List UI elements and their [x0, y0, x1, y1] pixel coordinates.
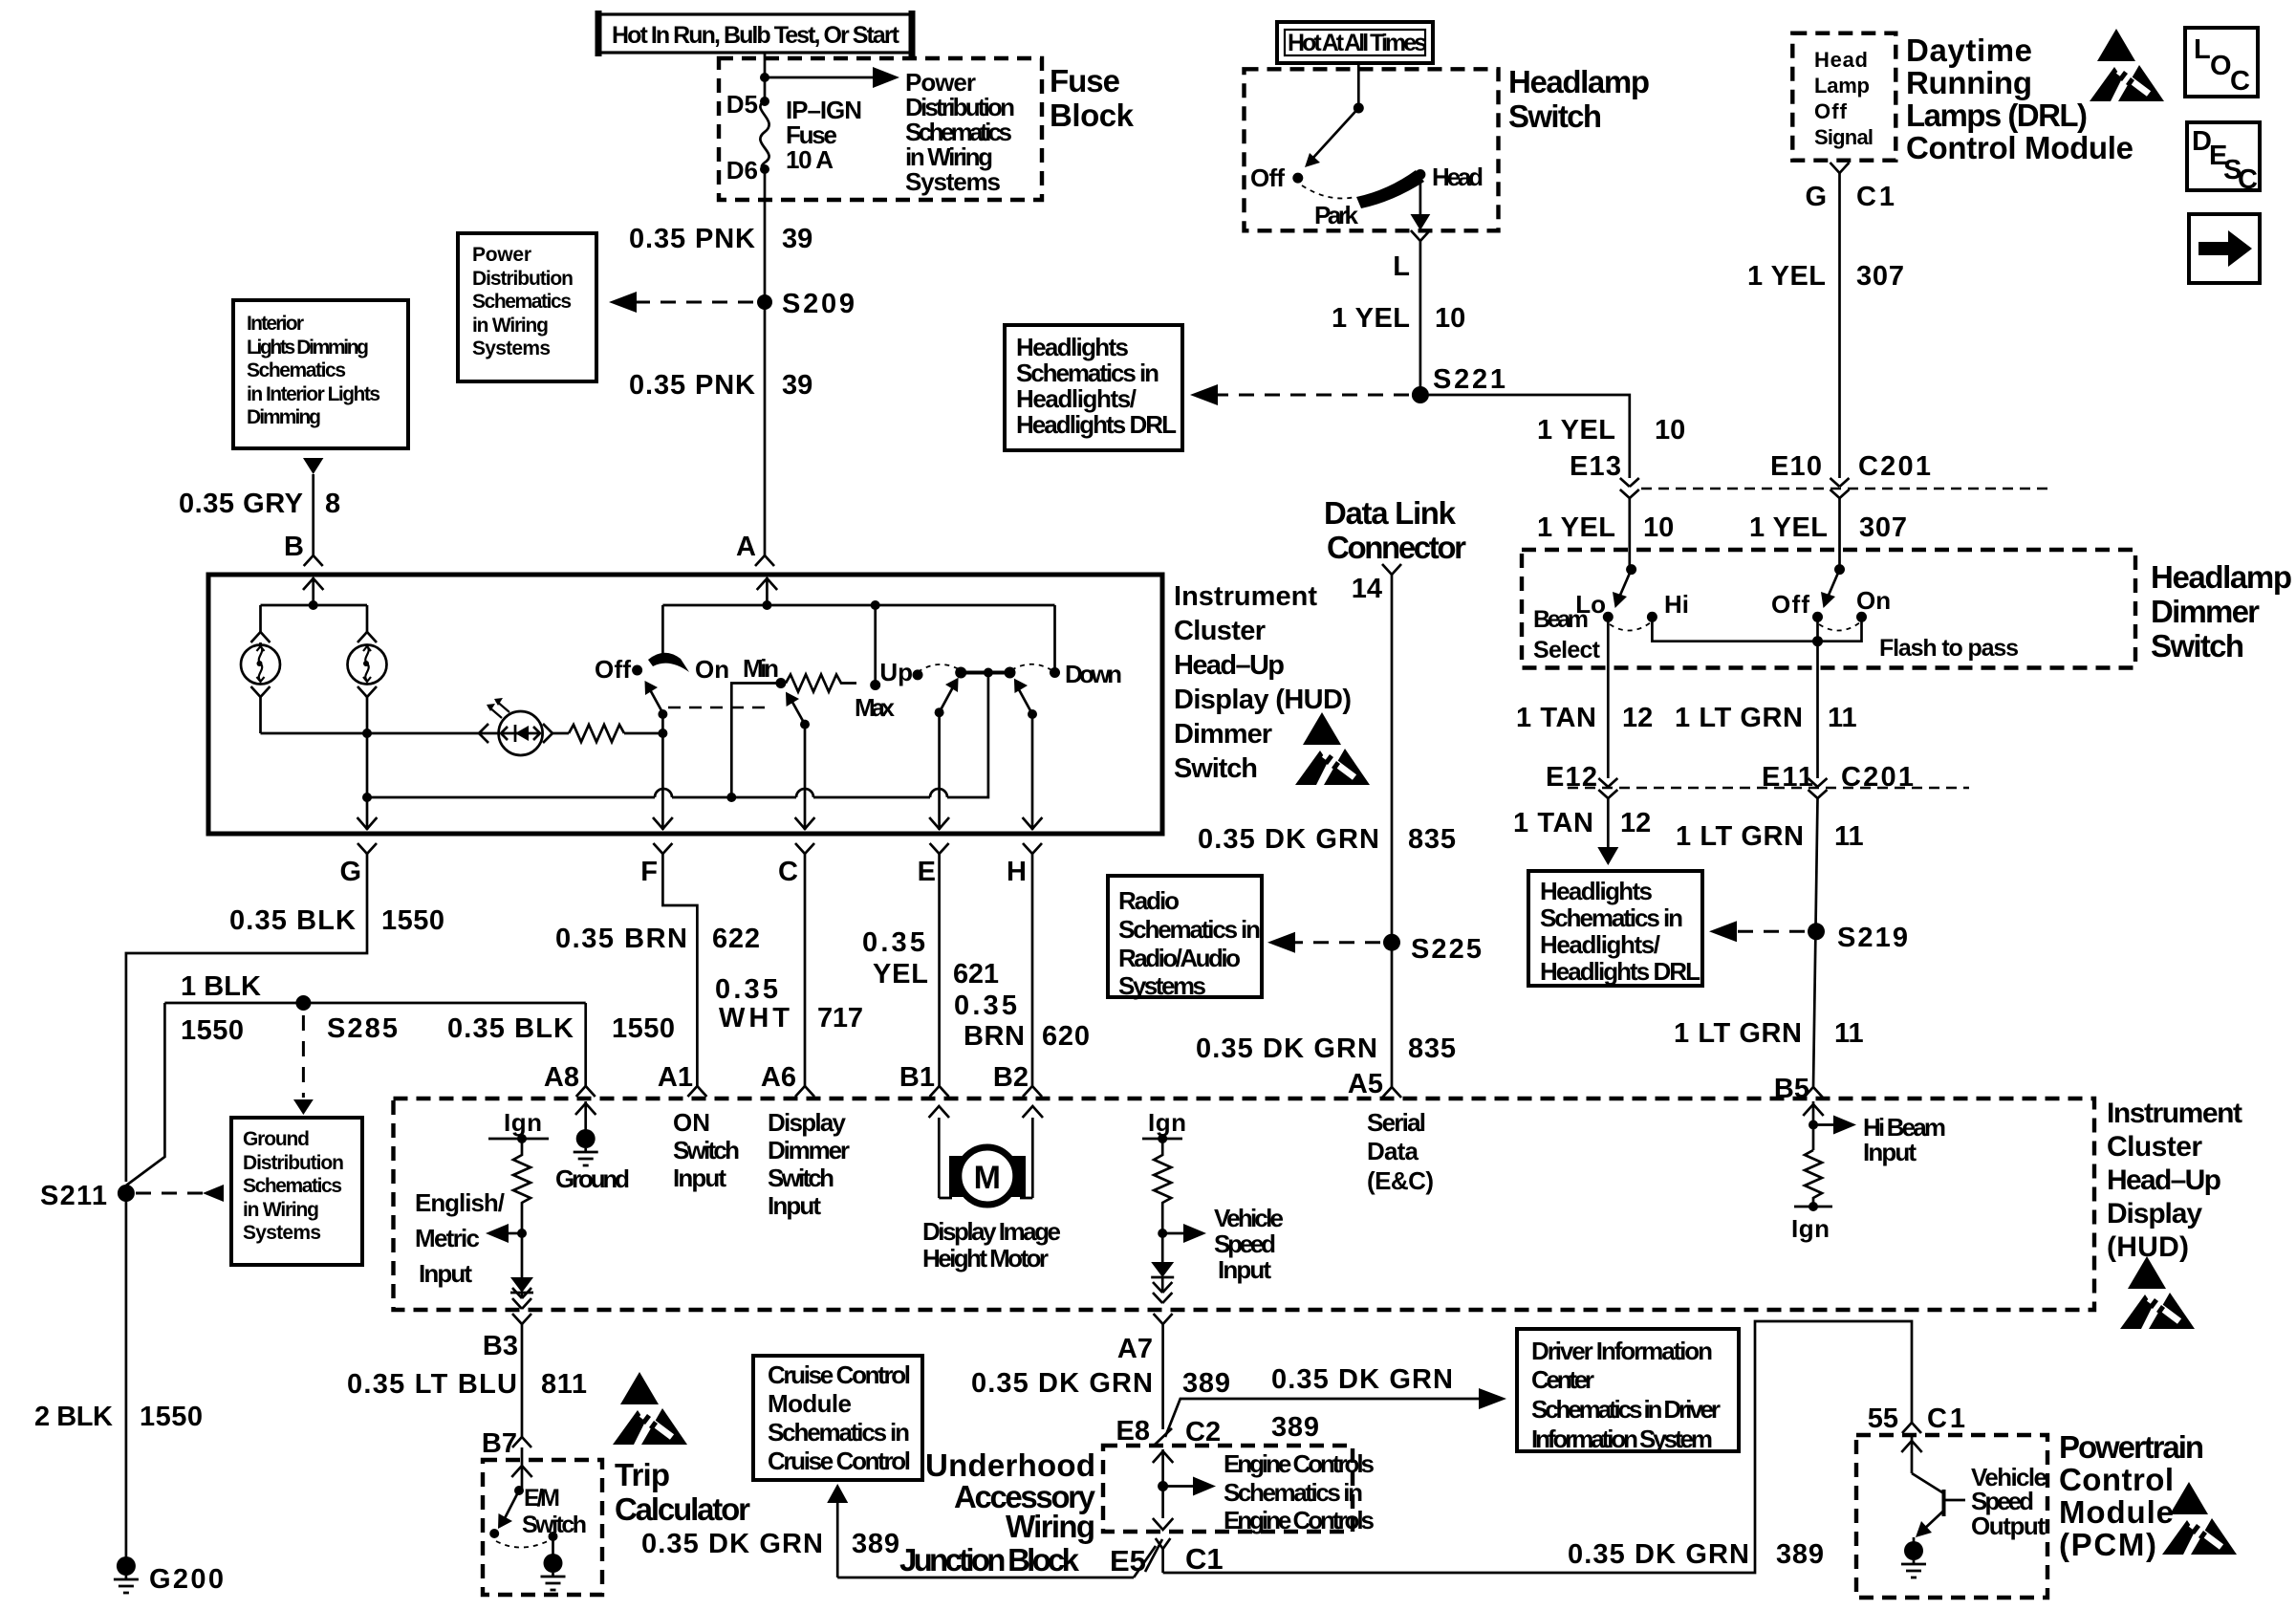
svg-text:Schematics in Driver: Schematics in Driver — [1531, 1395, 1721, 1424]
svg-text:On: On — [1856, 586, 1891, 615]
svg-text:10: 10 — [1435, 303, 1465, 334]
svg-text:Interior: Interior — [247, 313, 304, 335]
wire 0.35 DK GRN 389 to Driver Information Center — [1165, 1364, 1506, 1443]
svg-text:Metric: Metric — [415, 1224, 480, 1252]
Instrument Cluster HUD Dimmer Switch solid box — [208, 575, 1162, 834]
Data Link Connector — [1324, 495, 1466, 1087]
svg-text:A7: A7 — [1117, 1334, 1153, 1364]
Min/Max potentiometer — [731, 605, 895, 830]
wire 0.35 DK GRN 389 up-arrow to cruise box — [641, 1484, 1156, 1577]
svg-text:Lamps (DRL): Lamps (DRL) — [1906, 98, 2088, 133]
svg-text:Cruise Control: Cruise Control — [768, 1360, 911, 1389]
svg-text:D6: D6 — [726, 156, 758, 185]
svg-text:Schematics in: Schematics in — [1118, 915, 1261, 944]
svg-text:1 YEL: 1 YEL — [1537, 415, 1615, 446]
svg-text:717: 717 — [817, 1003, 863, 1033]
svg-text:Dimmer: Dimmer — [768, 1136, 850, 1164]
svg-text:B3: B3 — [483, 1331, 518, 1361]
svg-text:C1: C1 — [1856, 182, 1895, 212]
wire G: 0.35 BLK 1550 down-left to S211 — [126, 854, 367, 1182]
svg-text:C2: C2 — [1185, 1417, 1221, 1447]
svg-text:1 BLK: 1 BLK — [181, 971, 261, 1002]
wire E11 to B5: 1 LT GRN 11 — [1813, 798, 1818, 1088]
svg-text:L: L — [2194, 34, 2211, 65]
forward arrow box — [2189, 214, 2260, 283]
fuse IP-IGN 10A between D5 and D6 — [726, 90, 862, 185]
wire E5/C1 to PCM 55/C1: 0.35 DK GRN 389 — [1163, 1321, 1912, 1573]
lamp feed rail — [261, 604, 368, 607]
svg-text:Headlamp: Headlamp — [1508, 64, 1650, 99]
svg-text:0.35: 0.35 — [862, 927, 925, 958]
svg-text:Ign: Ign — [1148, 1108, 1186, 1137]
svg-text:Switch: Switch — [1508, 98, 1602, 134]
label Fuse Block — [1050, 63, 1135, 133]
svg-text:0.35 GRY: 0.35 GRY — [179, 489, 303, 519]
svg-text:Headlights DRL: Headlights DRL — [1016, 410, 1177, 439]
svg-text:0.35 BLK: 0.35 BLK — [447, 1013, 574, 1044]
wire B3 to B7: 0.35 LT BLU 811 — [521, 1324, 524, 1437]
svg-text:E11: E11 — [1762, 762, 1813, 793]
wire from Hot In Run box into fuse block — [764, 53, 767, 101]
dashed arrow S221 to Headlights Schematics box — [1212, 394, 1409, 397]
svg-text:0.35 DK GRN: 0.35 DK GRN — [971, 1368, 1153, 1399]
wire 1 YEL 307 from DRL to dimmer box — [1838, 498, 1841, 570]
svg-text:BRN: BRN — [964, 1021, 1025, 1052]
svg-text:Hot In Run, Bulb Test, Or Star: Hot In Run, Bulb Test, Or Start — [612, 22, 900, 49]
terminal E8 / C2 connector — [1116, 1416, 1222, 1447]
svg-text:Park: Park — [1314, 201, 1359, 229]
svg-text:E8: E8 — [1116, 1416, 1150, 1447]
svg-text:8: 8 — [325, 489, 340, 519]
svg-text:S221: S221 — [1433, 364, 1505, 395]
svg-text:Systems: Systems — [472, 337, 551, 359]
svg-text:Running: Running — [1906, 65, 2032, 100]
splice S211 — [118, 1185, 135, 1202]
svg-text:0.35 DK GRN: 0.35 DK GRN — [1568, 1539, 1749, 1570]
svg-text:Input: Input — [419, 1259, 472, 1288]
svg-text:Systems: Systems — [243, 1222, 321, 1244]
label: Powertrain Control Module (PCM) — [2059, 1429, 2204, 1562]
svg-text:D5: D5 — [726, 90, 758, 119]
box: Interior Lights Dimming Schematics — [233, 300, 408, 448]
svg-text:S219: S219 — [1837, 923, 1908, 953]
svg-text:Down: Down — [1065, 660, 1122, 688]
svg-text:Beam: Beam — [1533, 606, 1589, 633]
connector C201 dashed line (lower) — [1568, 787, 1969, 789]
svg-text:Vehicle: Vehicle — [1214, 1204, 1284, 1232]
photocell / LED line — [261, 698, 663, 755]
svg-text:Driver Information: Driver Information — [1531, 1337, 1713, 1365]
svg-text:WHT: WHT — [719, 1003, 790, 1033]
wire below C201: 1 YEL 10 to dimmer box — [1628, 498, 1631, 570]
svg-text:Ign: Ign — [1791, 1214, 1830, 1243]
label: Instrument Cluster Head-Up Display (HUD) Dimmer Switch — [1174, 581, 1352, 784]
label box: Hot At All Times — [1277, 22, 1433, 63]
terminal E5 / C1 connector — [1145, 1538, 1224, 1576]
svg-text:Output: Output — [1971, 1512, 2046, 1540]
svg-text:ON: ON — [673, 1108, 710, 1137]
svg-text:Display: Display — [768, 1108, 847, 1137]
ESD symbol next to DRL label — [2090, 29, 2164, 101]
svg-text:11: 11 — [1834, 821, 1864, 852]
connector C201 dashed line (upper) — [1641, 488, 2053, 490]
svg-text:Ground: Ground — [243, 1128, 310, 1150]
svg-text:Dimming: Dimming — [247, 406, 321, 428]
svg-text:Display Image: Display Image — [922, 1217, 1061, 1246]
svg-text:C201: C201 — [1858, 451, 1931, 482]
svg-text:G: G — [1805, 182, 1827, 212]
svg-text:O: O — [2210, 51, 2232, 81]
A8 ground inside HUD box — [555, 1101, 630, 1193]
wire fuse to S209 to big box (0.35 PNK 39) — [764, 169, 767, 556]
svg-text:0.35 LT BLU: 0.35 LT BLU — [347, 1369, 517, 1400]
svg-text:1 TAN: 1 TAN — [1513, 808, 1593, 838]
Underhood Accessory Wiring Junction Block dashed box — [1103, 1446, 1353, 1532]
svg-text:Hi: Hi — [1664, 590, 1689, 619]
wire Lo to E12: 1 TAN 12 — [1607, 617, 1610, 778]
svg-text:S211: S211 — [40, 1181, 107, 1211]
svg-text:Input: Input — [673, 1164, 726, 1192]
Off/On flash-to-pass switch — [1771, 564, 2019, 662]
headlamp switch internals — [1250, 63, 1484, 230]
DESC box — [2187, 122, 2260, 195]
svg-text:621: 621 — [953, 959, 999, 990]
svg-text:Display (HUD): Display (HUD) — [1174, 685, 1352, 715]
wire C to A6: 0.35 WHT 717 — [804, 854, 807, 1086]
dashed arrow S219 to Headlights box — [1732, 930, 1805, 933]
svg-text:Head: Head — [1432, 163, 1484, 191]
splice S285 — [295, 995, 311, 1011]
svg-text:1 YEL: 1 YEL — [1537, 512, 1615, 543]
svg-text:389: 389 — [852, 1529, 899, 1559]
svg-text:Schematics in: Schematics in — [768, 1418, 910, 1447]
svg-text:A6: A6 — [761, 1062, 796, 1093]
dashed arrow S285 to Ground Distribution box — [302, 1015, 305, 1098]
label Trip Calculator — [615, 1457, 750, 1527]
svg-text:0.35 PNK: 0.35 PNK — [629, 370, 755, 401]
svg-text:Schematics: Schematics — [472, 291, 572, 313]
box: Cruise Control Module Schematics in Cruise Control — [753, 1356, 922, 1480]
svg-text:Switch: Switch — [2151, 628, 2244, 664]
svg-text:in Wiring: in Wiring — [472, 315, 549, 337]
svg-text:Trip: Trip — [615, 1457, 670, 1492]
svg-text:10 A: 10 A — [786, 145, 834, 174]
LOC box — [2185, 28, 2258, 97]
splice S221 — [1412, 386, 1429, 403]
wire F to A1: 0.35 BRN 622 — [662, 854, 697, 1086]
svg-text:1 LT GRN: 1 LT GRN — [1675, 703, 1803, 733]
svg-text:Switch: Switch — [768, 1164, 834, 1192]
svg-text:0.35 DK GRN: 0.35 DK GRN — [1271, 1364, 1453, 1395]
svg-text:G200: G200 — [149, 1564, 224, 1595]
Off/On switch of dimmer — [595, 605, 729, 830]
svg-text:G: G — [339, 857, 361, 887]
svg-text:C1: C1 — [1927, 1403, 1965, 1434]
svg-text:in Interior Lights: in Interior Lights — [247, 383, 380, 405]
svg-text:(E&C): (E&C) — [1367, 1166, 1434, 1195]
svg-text:Center: Center — [1531, 1365, 1594, 1394]
left lamp branch — [251, 605, 271, 645]
Display Image Height Motor — [922, 1106, 1061, 1273]
svg-text:L: L — [1393, 251, 1410, 282]
svg-text:Radio: Radio — [1118, 886, 1180, 915]
svg-text:E5: E5 — [1110, 1544, 1146, 1577]
svg-text:1550: 1550 — [140, 1402, 203, 1432]
svg-text:389: 389 — [1776, 1539, 1824, 1570]
svg-text:Speed: Speed — [1214, 1229, 1276, 1258]
dashed arrow S209 to Power Distribution box — [631, 301, 753, 304]
svg-text:A: A — [736, 532, 756, 562]
svg-text:H: H — [1007, 857, 1027, 887]
svg-text:Up: Up — [879, 658, 913, 686]
svg-text:307: 307 — [1859, 512, 1907, 543]
dashed arrow S211 to Ground Distribution box — [136, 1192, 203, 1195]
svg-text:F: F — [640, 857, 658, 887]
svg-text:1550: 1550 — [612, 1013, 675, 1044]
svg-text:Off: Off — [1771, 590, 1809, 619]
vehicle speed output transistor — [1901, 1433, 2047, 1577]
svg-text:Module: Module — [2059, 1494, 2174, 1530]
svg-text:Serial: Serial — [1367, 1108, 1426, 1137]
splice S209 — [757, 294, 772, 310]
box: Headlights Schematics in Headlights/Headlights DRL (left) — [1005, 325, 1182, 450]
wire B inside box with up arrow — [303, 577, 323, 610]
svg-text:B5: B5 — [1774, 1074, 1809, 1104]
svg-text:12: 12 — [1622, 703, 1653, 733]
svg-text:0.35 DK GRN: 0.35 DK GRN — [1198, 824, 1379, 855]
label box: Hot In Run, Bulb Test, Or Start — [598, 11, 912, 56]
svg-text:Schematics: Schematics — [247, 359, 346, 381]
svg-text:0.35 BLK: 0.35 BLK — [229, 905, 356, 936]
lamp (illumination) left — [241, 645, 280, 685]
svg-text:Headlights DRL: Headlights DRL — [1540, 957, 1700, 986]
svg-text:Information System: Information System — [1531, 1425, 1713, 1453]
splice S225 — [1383, 934, 1400, 951]
svg-text:Max: Max — [855, 693, 896, 722]
arrow from Interior Lights box down to wire B — [303, 458, 323, 474]
svg-text:Switch: Switch — [673, 1136, 740, 1164]
svg-text:Head: Head — [1814, 48, 1868, 72]
wire 1 BLK 1550 S285 rail — [126, 1003, 586, 1186]
svg-text:Signal: Signal — [1814, 125, 1874, 149]
svg-text:Ign: Ign — [504, 1108, 542, 1137]
svg-text:Dimmer: Dimmer — [1174, 719, 1272, 750]
svg-text:Input: Input — [1218, 1255, 1271, 1284]
svg-text:811: 811 — [541, 1369, 587, 1400]
svg-text:(PCM): (PCM) — [2059, 1527, 2156, 1562]
box: Ground Distribution Schematics in Wiring Systems — [231, 1118, 362, 1265]
svg-text:Schematics: Schematics — [243, 1175, 342, 1197]
label: Daytime Running Lamps (DRL) Control Module — [1906, 33, 2134, 165]
ESD symbol near Trip Calculator — [613, 1372, 687, 1445]
ground G200 — [114, 1556, 139, 1593]
svg-text:Input: Input — [768, 1191, 821, 1220]
svg-text:B7: B7 — [482, 1428, 517, 1459]
svg-text:A8: A8 — [544, 1062, 579, 1093]
Display Dimmer Switch Input label — [768, 1108, 850, 1220]
mechanical link dashed — [668, 707, 772, 708]
inner bottom rail with hops — [367, 673, 988, 803]
svg-text:C: C — [2230, 66, 2250, 97]
svg-text:Head–Up: Head–Up — [1174, 650, 1285, 681]
wire E to B1: 0.35 YEL 621 — [938, 854, 941, 1086]
svg-text:Input: Input — [1863, 1138, 1917, 1166]
right lamp wire down to G — [357, 733, 378, 830]
svg-text:English/: English/ — [415, 1188, 505, 1217]
svg-text:55: 55 — [1868, 1403, 1898, 1434]
svg-text:Schematics in: Schematics in — [1540, 903, 1683, 932]
box: Driver Information Center Schematics in Driver Information System — [1517, 1329, 1739, 1453]
svg-text:Instrument: Instrument — [1174, 581, 1317, 612]
svg-text:Ground: Ground — [555, 1164, 630, 1193]
Instrument Cluster HUD dashed box — [394, 1099, 2095, 1310]
svg-text:Dimmer: Dimmer — [2151, 594, 2260, 629]
svg-text:Switch: Switch — [1174, 753, 1258, 784]
svg-text:Block: Block — [1050, 98, 1135, 133]
svg-text:S285: S285 — [327, 1013, 398, 1044]
svg-text:Calculator: Calculator — [615, 1491, 750, 1527]
svg-text:0.35 PNK: 0.35 PNK — [629, 224, 755, 254]
svg-text:S209: S209 — [782, 289, 855, 319]
wire L to S221: 1 YEL 10 — [1419, 241, 1422, 395]
svg-text:Off: Off — [1814, 99, 1848, 123]
svg-text:in Wiring: in Wiring — [243, 1199, 319, 1221]
label Underhood Accessory Wiring Junction Block — [899, 1447, 1146, 1577]
svg-text:B1: B1 — [899, 1062, 935, 1093]
svg-text:B2: B2 — [993, 1062, 1029, 1093]
svg-text:14: 14 — [1352, 574, 1382, 604]
svg-text:Off: Off — [595, 655, 631, 684]
svg-text:C1: C1 — [1185, 1542, 1224, 1576]
svg-text:Systems: Systems — [1118, 971, 1206, 1000]
Headlamp Dimmer Switch dashed box — [1522, 550, 2135, 668]
svg-text:Headlights/: Headlights/ — [1540, 930, 1660, 959]
svg-text:389: 389 — [1182, 1368, 1230, 1399]
svg-text:620: 620 — [1042, 1021, 1090, 1052]
DRL control module dashed box — [1792, 33, 1895, 161]
svg-text:Radio/Audio: Radio/Audio — [1118, 944, 1241, 972]
svg-text:Distribution: Distribution — [472, 268, 574, 290]
svg-text:Connector: Connector — [1327, 530, 1466, 565]
svg-text:Cluster: Cluster — [1174, 616, 1266, 646]
engine controls wire inside — [1153, 1449, 1375, 1534]
Head Lamp Off Signal label — [1814, 48, 1874, 149]
svg-text:0.35: 0.35 — [715, 974, 778, 1005]
svg-text:Display: Display — [2107, 1198, 2202, 1229]
svg-text:Data: Data — [1367, 1137, 1419, 1165]
label: Instrument Cluster Head-Up Display (HUD) right side — [2107, 1098, 2242, 1263]
wire A inside box with up arrow — [757, 577, 777, 605]
lamp (illumination) right — [348, 645, 387, 685]
Headlamp Switch dashed box — [1245, 69, 1499, 230]
inner top rail — [662, 600, 1054, 610]
svg-text:On: On — [695, 655, 729, 684]
svg-text:Height Motor: Height Motor — [922, 1244, 1049, 1273]
svg-text:Power: Power — [472, 244, 531, 266]
ESD symbol next to PCM label — [2162, 1482, 2237, 1555]
svg-text:1 LT GRN: 1 LT GRN — [1676, 821, 1804, 852]
svg-text:Hot At All Times: Hot At All Times — [1288, 30, 1427, 56]
svg-text:C: C — [2238, 164, 2258, 195]
svg-text:39: 39 — [782, 224, 812, 254]
svg-text:Engine Controls: Engine Controls — [1224, 1506, 1375, 1534]
Ign resistor / English-Metric input — [415, 1108, 549, 1309]
svg-text:0.35 DK GRN: 0.35 DK GRN — [1196, 1033, 1377, 1064]
splice S219 — [1808, 923, 1825, 940]
svg-text:Underhood: Underhood — [925, 1447, 1095, 1483]
svg-text:Systems: Systems — [905, 167, 1001, 196]
box: Radio Schematics in Radio/Audio Systems — [1108, 876, 1262, 1000]
svg-text:Schematics in: Schematics in — [1224, 1478, 1363, 1507]
svg-text:Module: Module — [768, 1389, 852, 1418]
dashed arrow S225 to Radio box — [1290, 941, 1380, 944]
svg-text:1 YEL: 1 YEL — [1747, 261, 1826, 292]
svg-text:Junction Block: Junction Block — [899, 1542, 1080, 1577]
svg-text:B: B — [284, 532, 304, 562]
svg-text:Switch: Switch — [522, 1512, 587, 1538]
Up/Down switch — [879, 605, 1122, 830]
Serial Data label — [1367, 1108, 1434, 1195]
svg-text:E/M: E/M — [524, 1485, 560, 1512]
svg-text:C: C — [778, 857, 798, 887]
svg-text:1 YEL: 1 YEL — [1332, 303, 1410, 334]
svg-text:Head–Up: Head–Up — [2107, 1164, 2221, 1196]
Lo/Hi beam select switch — [1533, 564, 1862, 664]
svg-text:2 BLK: 2 BLK — [34, 1402, 113, 1432]
wire H to B2: 0.35 BRN 620 — [1031, 854, 1034, 1086]
fuse block dashed box — [719, 58, 1042, 200]
svg-text:E10: E10 — [1770, 451, 1822, 482]
svg-text:39: 39 — [782, 370, 812, 401]
svg-text:Instrument: Instrument — [2107, 1098, 2242, 1129]
ESD symbol next to dimmer switch label — [1295, 712, 1370, 785]
svg-text:YEL: YEL — [873, 959, 928, 990]
svg-text:Flash to pass: Flash to pass — [1879, 635, 2019, 662]
svg-text:1 TAN: 1 TAN — [1516, 703, 1596, 733]
terminal L — [1411, 230, 1430, 241]
svg-text:Lights Dimming: Lights Dimming — [247, 337, 369, 359]
svg-text:Lamp: Lamp — [1814, 74, 1870, 98]
svg-text:Headlamp: Headlamp — [2151, 559, 2292, 595]
svg-text:M: M — [974, 1160, 1001, 1196]
svg-text:622: 622 — [712, 924, 760, 954]
terminal G C1 of DRL — [1830, 163, 1850, 173]
wire 2 BLK 1550 to G200 — [125, 1193, 128, 1558]
svg-text:Select: Select — [1533, 637, 1601, 664]
svg-text:A1: A1 — [658, 1062, 693, 1093]
svg-text:Powertrain: Powertrain — [2059, 1429, 2204, 1465]
svg-text:Headlights/: Headlights/ — [1016, 384, 1137, 413]
wire S221 to E13: 1 YEL 10 — [1420, 395, 1630, 478]
PCM dashed box — [1856, 1435, 2047, 1598]
Hi Beam Input resistor at B5 — [1791, 1101, 1946, 1243]
svg-text:1 LT GRN: 1 LT GRN — [1674, 1018, 1802, 1049]
wire E12 down arrow: 1 TAN 12 — [1513, 798, 1651, 865]
svg-text:12: 12 — [1620, 808, 1651, 838]
svg-text:307: 307 — [1856, 261, 1904, 292]
svg-text:0.35 DK GRN: 0.35 DK GRN — [641, 1529, 823, 1559]
wire A8 from S285 rail — [584, 1003, 587, 1086]
svg-text:Fuse: Fuse — [1050, 63, 1120, 98]
right lamp branch — [357, 605, 377, 642]
Trip Calculator dashed box — [483, 1460, 602, 1595]
svg-text:Cluster: Cluster — [2107, 1131, 2202, 1163]
svg-text:Min: Min — [743, 654, 779, 683]
Ign + Vehicle Speed Input resistor — [1142, 1108, 1284, 1303]
svg-text:1 YEL: 1 YEL — [1749, 512, 1828, 543]
wire G/C1 down: 1 YEL 307 — [1838, 173, 1841, 478]
svg-text:A5: A5 — [1348, 1069, 1383, 1099]
